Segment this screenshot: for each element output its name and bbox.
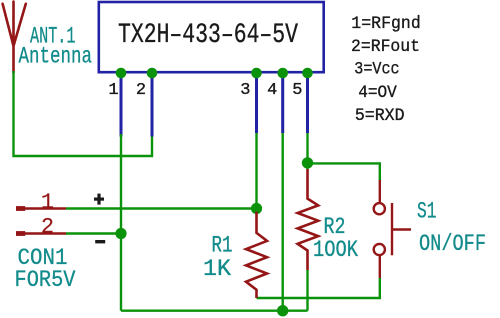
svg-text:Antenna: Antenna [19,44,93,70]
svg-text:5: 5 [292,81,302,100]
wire CON1 pin1 + to R1 top [66,207,257,209]
connector CON1 pin 1 [16,206,66,211]
svg-text:5=RXD: 5=RXD [355,106,405,126]
svg-text:1: 1 [41,190,54,215]
svg-text:ON/OFF: ON/OFF [419,231,486,257]
svg-text:R1: R1 [212,233,233,259]
wire pin 4 down to 0V rail [282,133,284,311]
svg-text:2: 2 [41,215,54,240]
wire pin 3 down to R1 [255,133,257,212]
svg-text:4=OV: 4=OV [358,83,397,103]
pin 5 of U1 [306,73,309,133]
resistor R2 [298,169,319,270]
junction dot pin 1 [116,68,127,79]
svg-text:1=RFgnd: 1=RFgnd [351,14,421,34]
pin 4 of U1 [281,73,284,133]
pin 3 of U1 [255,73,258,133]
svg-text:2: 2 [136,81,146,100]
wire pin 1 down to 0V rail [120,134,122,311]
wire 0V bottom rail [121,310,308,312]
resistor R1 [246,212,267,299]
connector CON1 pin 2 [16,231,66,236]
svg-text:3=Vcc: 3=Vcc [354,60,399,80]
plus sign [94,194,104,205]
svg-text:S1: S1 [417,199,437,225]
svg-text:TX2H–433–64–5V: TX2H–433–64–5V [118,20,298,51]
switch S1 [374,180,411,278]
svg-text:1OOK: 1OOK [313,237,358,263]
svg-text:FOR5V: FOR5V [15,267,76,293]
svg-text:1: 1 [108,81,118,100]
junction dot pin 2 [147,68,158,79]
junction dot 0V rail pin 4 [277,305,288,316]
junction dot pin 4 [277,68,288,79]
junction dot pin 5 [302,68,313,79]
svg-text:4: 4 [267,81,277,100]
wire R1 bottom to switch bottom [257,278,380,298]
pin 2 of U1 [151,73,154,137]
wire pin 5 down to R2 [306,133,308,169]
wire antenna to pin 2 [14,71,153,156]
svg-text:1K: 1K [203,256,231,282]
junction dot CON1 minus [115,228,126,239]
minus sign [95,240,105,243]
pin 1 of U1 [120,73,123,137]
wire CON1 pin2 - to pin1 column [66,232,121,234]
antenna ANT.1 [3,2,26,73]
junction dot R2 top [302,157,313,168]
wire R2 top to switch top [308,163,380,180]
module U1 TX2H-433-64-5V box [99,2,324,72]
svg-text:2=RFout: 2=RFout [351,37,420,57]
junction dot pin 3 [251,68,262,79]
svg-text:3: 3 [240,81,250,100]
wire R2 bottom to 0V rail [306,270,308,311]
junction dot R1 top [251,203,262,214]
